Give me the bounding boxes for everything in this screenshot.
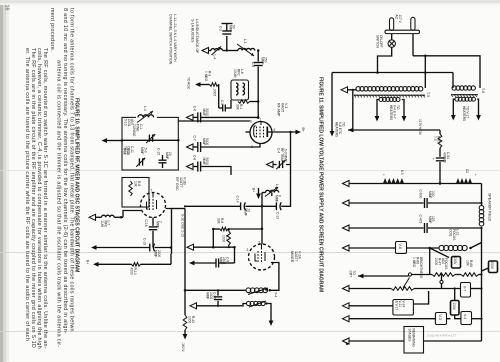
svg-text:10K: 10K (134, 181, 138, 188)
trimmer C-4 RF TRIM (278, 161, 280, 168)
svg-text:250V: 250V (490, 261, 494, 269)
svg-text:+: + (433, 157, 435, 161)
ground arrow L-7 line (89, 214, 96, 220)
wire L-3 to mixer grid (262, 192, 266, 194)
svg-text:STAGES: STAGES (408, 329, 412, 343)
wire C-16 down to grid line (152, 231, 154, 248)
ground arrow remaining stages (343, 338, 350, 344)
line 3 with C-479 (343, 225, 350, 231)
svg-text:L-4: L-4 (213, 55, 217, 60)
wire mixer plate out (270, 263, 279, 291)
capacitor C-8 5000 MMF (197, 162, 199, 172)
capacitor C-9 1500 MMF (215, 259, 217, 268)
capacitor C-6 5000 MMF (197, 112, 199, 122)
wire (472, 318, 482, 320)
svg-text:T-5: T-5 (426, 92, 430, 97)
svg-text:MMF: MMF (156, 221, 160, 228)
svg-text:C-2: C-2 (219, 26, 223, 31)
svg-text:S-1A BUSSES: S-1A BUSSES (191, 19, 195, 43)
capacitor C-7 5000 MMF (197, 142, 199, 152)
ground arrow screen line 1 (343, 181, 350, 187)
svg-text:2000: 2000 (434, 258, 438, 265)
svg-text:2: 2 (259, 241, 261, 245)
svg-text:C-600: C-600 (419, 190, 423, 199)
ground arrow brightness line (343, 286, 350, 292)
wire (193, 166, 198, 168)
svg-text:5-13: 5-13 (124, 119, 128, 126)
variable arrow through L-1 (237, 44, 254, 56)
svg-text:C-5: C-5 (220, 100, 224, 105)
svg-text:T-6: T-6 (481, 88, 485, 93)
wire (447, 318, 451, 320)
wire heater tap down (331, 73, 333, 132)
wire (222, 50, 238, 52)
wiper arrow brightness (403, 278, 410, 289)
coil L-4 (211, 49, 222, 51)
wire grid line from box (178, 120, 250, 122)
svg-text:RF AMP: RF AMP (277, 103, 281, 117)
svg-text:2UH: 2UH (100, 221, 104, 228)
svg-text:L4-INDUCTANCE OF: L4-INDUCTANCE OF (195, 19, 199, 54)
svg-text:V-3: V-3 (438, 314, 442, 319)
wiper circle (408, 273, 411, 276)
wire osc injection (213, 228, 220, 230)
on-off switch (388, 40, 395, 47)
wire (413, 291, 428, 304)
svg-text:MMF: MMF (244, 209, 248, 216)
svg-text:C-479: C-479 (419, 215, 423, 224)
ground arrow V-3 line (343, 316, 350, 322)
svg-text:CHANNEL SWITCH POSITION.: CHANNEL SWITCH POSITION. (169, 14, 173, 65)
svg-text:1 MEG: 1 MEG (204, 71, 208, 82)
resistor R-47 focus pot (432, 273, 455, 277)
svg-text:MMF: MMF (229, 25, 233, 32)
svg-text:150V: 150V (453, 257, 457, 265)
wire (349, 183, 482, 185)
svg-text:3: 3 (251, 145, 253, 149)
terminal arrow C-9 line (189, 261, 195, 266)
svg-text:TUNING: TUNING (132, 124, 136, 137)
ground arrow (190, 303, 197, 309)
terminal arrow mid line (102, 138, 108, 143)
wire left prong (391, 34, 393, 40)
svg-text:V-8: V-8 (398, 243, 402, 248)
svg-text:40MMF: 40MMF (443, 152, 447, 163)
resistor R-68 10K (461, 273, 479, 277)
svg-text:CRT: CRT (349, 271, 353, 278)
box V-7 (461, 283, 471, 298)
svg-text:C-6: C-6 (193, 106, 197, 111)
svg-text:MMF: MMF (428, 216, 432, 223)
transformer T-6 secondary (455, 97, 459, 101)
wire 250V diagonal (482, 268, 489, 271)
svg-text:HEATERS: HEATERS (462, 106, 466, 122)
svg-text:6: 6 (250, 120, 252, 124)
faint scanner band lines (0, 170, 500, 172)
svg-text:C-7: C-7 (193, 136, 197, 141)
wire (97, 247, 150, 249)
switch section box S-1 (122, 117, 178, 170)
wire (414, 284, 442, 289)
transformer T-6 primary (452, 86, 456, 90)
resistor R-66 BRIGHTNESS pot (391, 287, 414, 291)
terminal arrow osc grid line (91, 245, 97, 250)
capacitor C-14 series (240, 202, 242, 210)
wire mid line inside box (122, 139, 178, 141)
wire right bus (481, 184, 483, 206)
svg-text:+: + (475, 173, 477, 177)
wire (454, 289, 456, 301)
wire (193, 116, 198, 118)
capacitor C-13 series (275, 202, 277, 210)
svg-text:C2: C2 (465, 169, 469, 173)
tube V-2B 12AT7 RF OSC (141, 193, 166, 218)
box 150V (452, 257, 461, 269)
svg-text:FIGURE 11. SIMPLIFIED LOW VOL: FIGURE 11. SIMPLIFIED LOW VOLTAGE POWER … (318, 77, 324, 292)
svg-text:C-8: C-8 (193, 155, 197, 160)
ground arrow V-24 line (343, 303, 350, 309)
svg-text:L-1,L-2,L-3 & L-4 VARY WITH: L-1,L-2,L-3 & L-4 VARY WITH (173, 14, 177, 62)
ground arrow grid return (187, 244, 194, 250)
capacitor C-5 (222, 105, 224, 112)
svg-text:RF OSC: RF OSC (175, 177, 179, 191)
svg-text:COIL: COIL (449, 229, 453, 237)
svg-text:7: 7 (151, 189, 153, 193)
svg-text:1 MEG: 1 MEG (412, 257, 416, 268)
filter stack A (383, 178, 404, 183)
wire (424, 340, 482, 342)
svg-text:MMF: MMF (202, 108, 206, 115)
wire secondary to IF out (267, 304, 272, 323)
svg-text:SPEAKER FIELD: SPEAKER FIELD (488, 193, 492, 222)
svg-text:1: 1 (273, 249, 275, 253)
resistor R-8 10K (129, 181, 132, 196)
svg-text:L-3: L-3 (275, 184, 279, 189)
wire (212, 229, 214, 247)
wire (155, 247, 171, 249)
variable arrow through L-4 (212, 47, 222, 56)
resistor R-7 1000 (227, 231, 230, 245)
wire secondary return (197, 304, 247, 306)
svg-text:7.5: 7.5 (433, 136, 437, 141)
svg-text:33K: 33K (217, 218, 221, 225)
svg-text:C-19: C-19 (143, 238, 147, 245)
svg-text:MMF: MMF (140, 147, 144, 154)
svg-text:B+: B+ (86, 260, 90, 264)
left page text column (rotated body text) (24, 8, 75, 349)
svg-text:HEATERS: HEATERS (335, 122, 339, 138)
svg-text:MIXER: MIXER (290, 251, 294, 263)
terminal arrow T-5 primary (341, 87, 348, 93)
svg-text:2-162 40 4 PATH-CTT: 2-162 40 4 PATH-CTT (427, 333, 457, 337)
wire to trimmer C-4 (286, 132, 291, 165)
svg-text:er. The antenna coils are tun: er. The antenna coils are tuned to the p… (24, 48, 30, 341)
wire C-7 line to cathode (201, 143, 260, 147)
wire (193, 146, 198, 148)
svg-text:33K: 33K (236, 104, 240, 111)
box 250V (489, 261, 498, 273)
svg-text:TRIM: TRIM (123, 146, 127, 154)
capacitor C-2 50 MMF (226, 36, 228, 51)
wire B+ line (99, 263, 132, 265)
svg-text:L-4: L-4 (143, 106, 147, 111)
coil L-6 RFC 10UH (shielded box) (231, 80, 249, 100)
svg-text:6.3: 6.3 (400, 170, 404, 175)
wire (228, 228, 262, 230)
wire (219, 262, 235, 264)
wire (424, 56, 426, 88)
svg-text:T-4: T-4 (274, 292, 278, 297)
resistor R-43 1000 (183, 315, 187, 330)
ground arrow C-7 line (187, 144, 194, 150)
svg-text:MMF: MMF (261, 57, 265, 64)
svg-text:antenna coil is connected and: antenna coil is connected and the trimme… (56, 60, 62, 348)
svg-text:V-4: V-4 (463, 314, 467, 319)
svg-text:V-7: V-7 (463, 286, 467, 291)
tube V-2A 12AT7 MIXER (249, 244, 275, 270)
wire (439, 162, 441, 184)
ground arrow focus line (343, 245, 350, 251)
box V-4 (461, 312, 472, 325)
resistor R-95 7.5 (439, 130, 441, 134)
svg-text:MMF: MMF (202, 158, 206, 165)
wire grid stub (246, 131, 251, 133)
capacitor C-20 1500 MMF (217, 290, 219, 295)
svg-text:MMF: MMF (165, 152, 169, 159)
svg-text:10K: 10K (466, 260, 470, 267)
svg-text:C-15: C-15 (157, 148, 161, 155)
svg-text:SWITCH: SWITCH (376, 35, 380, 48)
terminal arrow -160V (184, 330, 186, 334)
capacitor C-16 (152, 218, 154, 226)
box REMAINING STAGES (404, 327, 424, 354)
svg-text:1000: 1000 (188, 316, 192, 323)
svg-text:8 and 10 mc and no tuning is n: 8 and 10 mc and no tuning is necessary. … (62, 8, 68, 334)
switch box S-1C osc (122, 178, 149, 208)
svg-text:1000: 1000 (222, 235, 226, 242)
svg-text:10UH: 10UH (233, 69, 237, 78)
filter stack B (456, 178, 472, 183)
box 130V (451, 301, 460, 316)
capacitor C-600 100MMF (424, 198, 426, 208)
svg-text:C-3: C-3 (251, 62, 255, 67)
wire -160V bus (184, 209, 186, 316)
wiper of focus pot (441, 275, 443, 281)
svg-text:MMF: MMF (428, 191, 432, 198)
tube V-1 6AG5 RF AMP (250, 122, 272, 144)
speaker field coil (479, 206, 484, 211)
terminal arrow antenna line (202, 48, 209, 54)
wire C-6 line to grid (201, 116, 258, 118)
wire AC top line (413, 56, 480, 88)
svg-text:& V-17: & V-17 (395, 301, 399, 311)
wire (452, 73, 454, 89)
coil L-21 FOCUS COIL (439, 245, 444, 250)
svg-text:B+: B+ (301, 128, 305, 133)
resistor R-10 4000 (132, 263, 141, 267)
resistor R-1 33K (238, 100, 250, 104)
svg-text:C-4: C-4 (277, 148, 281, 153)
line 2 with C-600 (343, 200, 350, 206)
svg-text:4000: 4000 (130, 268, 134, 275)
T-5 core (354, 95, 425, 98)
wire CRT to wiper (358, 275, 409, 277)
box V-3 (435, 313, 446, 325)
wire osc grid left (123, 211, 141, 218)
svg-text:1: 1 (260, 118, 262, 122)
coil L-7 RFC (102, 215, 115, 217)
wire pot line (412, 274, 433, 276)
svg-text:MMF: MMF (275, 195, 279, 202)
svg-text:C-16: C-16 (144, 220, 148, 227)
svg-text:.0005: .0005 (213, 88, 217, 96)
ground arrow C-8 line (187, 164, 194, 170)
left scan edge shading (0, 0, 3, 362)
ground arrow C-4 (267, 162, 274, 168)
wire (107, 140, 122, 142)
svg-text:AC: AC (395, 15, 399, 20)
wire focus tap diagonal (430, 248, 449, 258)
capacitor C-479 125MMF (424, 223, 426, 233)
wire osc plate down (166, 209, 172, 255)
wire coupling up to RF plate (281, 165, 290, 207)
wire down to focus pot (429, 248, 431, 275)
svg-text:C-14: C-14 (236, 196, 240, 203)
svg-text:117V+6.3V: 117V+6.3V (418, 119, 422, 136)
wire (96, 216, 102, 218)
coil L-4 tuning (top of box) (136, 114, 157, 122)
transformer T-5 primary (356, 87, 361, 92)
terminal arrow TO AGC (195, 82, 201, 87)
wire (352, 91, 354, 131)
svg-text:S-1C OSC 2-13: S-1C OSC 2-13 (181, 214, 185, 237)
AC plug body (385, 30, 420, 33)
trimmer C-11 OSC TRIM (138, 158, 140, 165)
capacitor C-94 40MMF (439, 148, 441, 157)
svg-text:C-13: C-13 (276, 212, 280, 219)
coil T-4 primary (246, 288, 251, 293)
svg-text:+: + (383, 173, 385, 177)
AC plug prongs (390, 18, 394, 31)
capacitor C-19 series (149, 244, 151, 252)
svg-text:16: 16 (4, 5, 10, 11)
box V-24 V-11 V-17 (393, 300, 414, 316)
top scan edge shading (0, 0, 500, 3)
wire (245, 205, 276, 207)
resistor R-6 33K (220, 227, 228, 230)
wire (209, 50, 212, 52)
svg-text:L-1: L-1 (243, 39, 247, 44)
wire down to C-9 (234, 247, 236, 263)
svg-text:HEATERS: HEATERS (389, 105, 393, 121)
capacitor C-15 20 MMF (159, 159, 167, 161)
svg-text:MMF: MMF (206, 292, 210, 299)
svg-text:B+: B+ (252, 188, 256, 192)
wire osc out to bus (172, 208, 186, 210)
wire mixer grid line (185, 205, 241, 207)
wire right prong (412, 34, 414, 56)
resistor R-3 1 MEG (210, 83, 219, 87)
B+ terminal arrow (296, 130, 302, 135)
coil L-3 (266, 190, 279, 192)
wire to bus (471, 243, 482, 249)
coil L-1 (238, 48, 255, 50)
coil T-4 secondary (247, 301, 251, 305)
B+ arrow feed (258, 188, 260, 194)
wire (141, 263, 172, 265)
wire to V-7 (442, 288, 461, 290)
wire grid return line (193, 246, 235, 248)
svg-text:3: 3 (247, 248, 249, 252)
svg-text:130V: 130V (452, 302, 456, 310)
wire (250, 101, 259, 103)
box V-8 (396, 242, 407, 254)
transformer T-5 secondary (379, 98, 383, 102)
wire bus to T-4 (185, 289, 246, 291)
wire (218, 85, 220, 109)
wire (201, 84, 210, 86)
wire heater leads (377, 100, 379, 118)
svg-text:-160 V.: -160 V. (181, 342, 185, 352)
svg-text:MMF: MMF (154, 250, 158, 257)
terminal arrow 117V line (348, 128, 354, 133)
svg-text:ment procedure.: ment procedure. (49, 8, 55, 52)
wire plate vertical extend (170, 254, 172, 264)
svg-text:MMF: MMF (202, 138, 206, 145)
svg-text:TO AGC: TO AGC (187, 77, 191, 90)
wire plate to B+ (268, 131, 297, 133)
wire (349, 340, 404, 342)
svg-text:FIGURE 10. SIMPLIFIED RF, MIX: FIGURE 10. SIMPLIFIED RF, MIXER AND OSC … (74, 98, 80, 272)
B+ terminal arrow (93, 262, 99, 267)
capacitor C-3 250 MMF (257, 51, 259, 62)
wire AC second line (332, 72, 453, 74)
wire (114, 216, 123, 218)
trimmer C-1 FINE TUNING (148, 135, 150, 142)
wire switch to bus (378, 47, 392, 72)
wire C-8 line (201, 167, 231, 176)
wire (195, 262, 216, 264)
wire (471, 288, 482, 290)
ground arrow C-6 line (187, 114, 194, 120)
